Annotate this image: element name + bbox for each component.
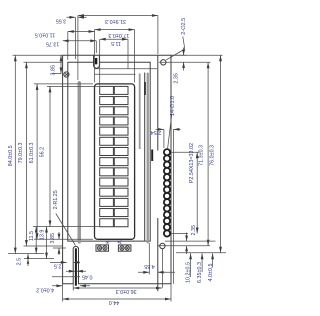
dim 11.5 left bottom (29, 227, 37, 254)
svg-text:K: K (105, 240, 111, 244)
mounting hole top centerline (159, 61, 187, 63)
top slot tab (95, 58, 97, 64)
dim 4.55 bezel to pcb edge (138, 243, 175, 275)
dim 2.54 pin to edge (151, 128, 181, 148)
svg-text:79.0±0.3: 79.0±0.3 (18, 142, 24, 163)
dim 4.0±0.5 (208, 253, 214, 281)
glass zebra bar right (139, 74, 141, 150)
svg-text:3.85: 3.85 (50, 233, 56, 244)
svg-text:31.9±0.3: 31.9±0.3 (105, 18, 126, 24)
dim 31.9±0.3 (78, 14, 158, 80)
svg-text:4.0±0.5: 4.0±0.5 (208, 264, 214, 282)
pcb inner edge line right (172, 129, 174, 283)
glass edge left bar (78, 81, 82, 244)
svg-text:61.0±0.3: 61.0±0.3 (29, 142, 35, 163)
dim 71.3±0.3 (187, 62, 211, 246)
dim 17.0±0.3 (95, 28, 135, 82)
glass edge right thin lines (144, 73, 146, 241)
svg-text:3.85: 3.85 (51, 65, 57, 76)
dim 61.0±0.3 (29, 84, 93, 239)
mounting hole top (161, 60, 166, 65)
svg-text:44.0: 44.0 (109, 299, 120, 305)
leader 2-R1.25 (53, 190, 75, 245)
backlight terminal box K (96, 245, 109, 251)
svg-text:2.54: 2.54 (151, 129, 162, 135)
svg-text:P2.54X13=33.02: P2.54X13=33.02 (189, 143, 195, 183)
dim 2.5 slot (50, 261, 80, 269)
dim 2.35 bottom right (165, 225, 216, 254)
svg-text:56.2: 56.2 (40, 147, 46, 158)
svg-text:4.0±0.2: 4.0±0.2 (36, 287, 54, 293)
svg-text:A: A (118, 240, 124, 244)
dim 4.0±0.2 slot offset (36, 277, 90, 293)
dim 3.55 top (56, 16, 87, 59)
dim 2.35 top right (171, 48, 186, 84)
svg-text:71.3±0.3: 71.3±0.3 (198, 145, 204, 166)
dim 10.2±0.5 (186, 253, 192, 283)
svg-text:2-∅2.5: 2-∅2.5 (181, 18, 187, 35)
bezel tab mark right upper (144, 82, 146, 95)
svg-text:17.0±0.3: 17.0±0.3 (108, 32, 129, 38)
dim 11.5 (100, 38, 128, 86)
glass contact edge lines top (95, 69, 157, 75)
svg-text:0.45: 0.45 (82, 273, 93, 279)
backlight terminal box A (118, 245, 130, 251)
svg-text:2.35: 2.35 (191, 225, 197, 236)
dim 6.35±0.3 (197, 253, 203, 283)
dim 36.0±0.3 (73, 284, 162, 294)
dim 3.85 left bottom (50, 232, 66, 255)
bezel tab mark right lower (151, 150, 153, 162)
svg-text:13.9: 13.9 (40, 230, 46, 241)
dim 56.2 (33, 86, 99, 226)
dim 3.85 left top (51, 55, 63, 75)
dim 13.9 left bottom (24, 227, 54, 259)
leader 2-phi2.5 (166, 18, 187, 60)
dim 84.0±0.5 (8, 55, 62, 253)
dim 0.45 tab (66, 270, 92, 280)
pin strip boundary line (157, 55, 159, 291)
dim 76.0±0.3 (171, 55, 226, 253)
mounting hole bottom (160, 243, 165, 248)
svg-text:2.5: 2.5 (17, 258, 23, 266)
svg-text:3.55: 3.55 (56, 18, 67, 24)
svg-text:2-R1.25: 2-R1.25 (53, 190, 59, 209)
dim 44.0 (63, 284, 171, 305)
svg-text:14-∅1.0: 14-∅1.0 (170, 96, 176, 116)
svg-text:2.35: 2.35 (174, 73, 180, 84)
mounting hole bottom centerlines (157, 246, 210, 288)
svg-text:4.55: 4.55 (144, 263, 155, 269)
glass edge right bar (147, 73, 149, 244)
character cell grid 13x2 (100, 86, 128, 226)
leader 14-phi1.0 (168, 96, 176, 149)
svg-text:11.5: 11.5 (111, 40, 121, 46)
PCB outline (63, 55, 171, 284)
top slot (94, 55, 100, 68)
display window (95, 84, 135, 239)
dim 79.0±0.3 (18, 62, 62, 246)
dim 13.75 top (46, 39, 96, 53)
bottom slot tab (75, 248, 77, 285)
fiducial circle-x on bezel left edge (64, 72, 69, 77)
pin holes 14x (164, 149, 170, 236)
svg-text:6.35±0.3: 6.35±0.3 (197, 262, 203, 283)
svg-text:10.2±0.5: 10.2±0.5 (186, 262, 192, 283)
svg-text:13.75: 13.75 (46, 41, 60, 47)
bezel outline (68, 62, 150, 241)
svg-text:11.0±0.5: 11.0±0.5 (35, 31, 56, 37)
svg-text:11.5: 11.5 (29, 231, 35, 241)
dim P2.54X13=33.02 (171, 143, 200, 234)
svg-text:36.0±0.3: 36.0±0.3 (116, 288, 137, 294)
dim 2.5 far left (17, 254, 30, 266)
dim 11.0±0.5 top (35, 30, 95, 60)
svg-text:2.5: 2.5 (54, 263, 62, 269)
svg-text:84.0±0.5: 84.0±0.5 (8, 145, 14, 166)
svg-text:76.0±0.3: 76.0±0.3 (210, 145, 216, 166)
